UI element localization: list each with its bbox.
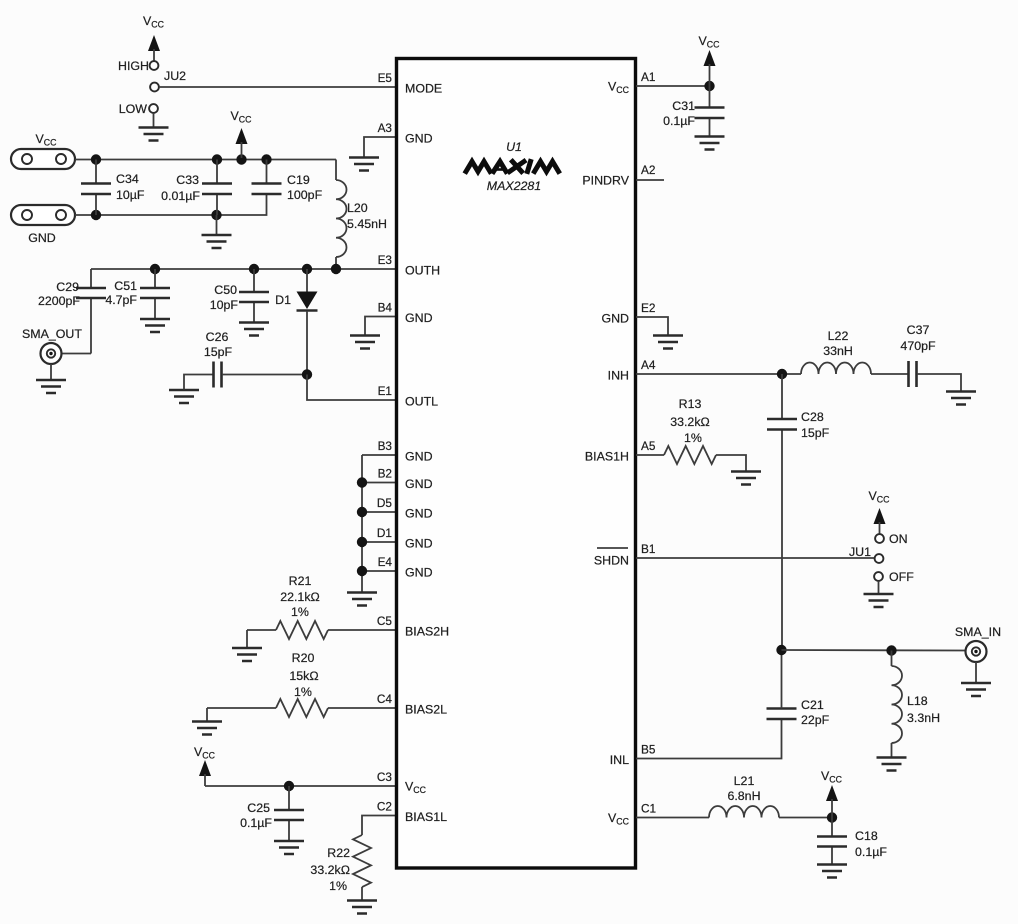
svg-text:GND: GND [405, 450, 433, 464]
jumper JU1 pin ON [875, 534, 884, 543]
wire to OUTL pin E1 [307, 375, 396, 401]
wire R21 left lead [247, 629, 276, 631]
svg-text:L18: L18 [907, 694, 928, 708]
capacitor C21 [767, 709, 797, 720]
junction C33 top [212, 154, 222, 164]
wire tap to L18 [891, 651, 893, 667]
ground at R22 [347, 901, 377, 914]
svg-text:1%: 1% [294, 685, 312, 699]
svg-text:INL: INL [610, 753, 629, 767]
wire pin D5 stub [362, 511, 396, 513]
svg-text:3.3nH: 3.3nH [907, 711, 940, 725]
inductor L22 [801, 363, 871, 375]
capacitor C33 leads [216, 160, 218, 216]
wire R13 to ground [716, 455, 746, 471]
svg-text:R13: R13 [679, 397, 702, 411]
wire pin C1 VCC [636, 817, 709, 819]
wire SMA_IN to ground [975, 662, 977, 683]
wire R21 to pin C5 [328, 629, 396, 631]
svg-text:SHDN: SHDN [594, 554, 629, 568]
svg-text:R22: R22 [327, 846, 350, 860]
svg-text:LOW: LOW [119, 102, 148, 116]
svg-text:100pF: 100pF [287, 188, 323, 202]
svg-text:L22: L22 [828, 329, 849, 343]
svg-text:2200pF: 2200pF [38, 294, 80, 308]
svg-text:E1: E1 [378, 384, 392, 398]
wire C37 to ground [917, 374, 961, 391]
rail VCC symbol [231, 109, 253, 158]
jumper JU2 pin HIGH [150, 61, 159, 70]
ground at SMA_IN [961, 683, 991, 696]
ground at R13 [731, 472, 761, 485]
svg-text:GND: GND [405, 507, 433, 521]
svg-text:VCC: VCC [699, 34, 721, 50]
wire JU2 to MODE pin E5 [159, 86, 396, 88]
svg-text:VCC: VCC [821, 769, 843, 785]
svg-text:B2: B2 [378, 467, 392, 481]
junction C51 top [150, 264, 160, 274]
wire R22 to ground [361, 887, 363, 900]
svg-text:0.1µF: 0.1µF [663, 114, 695, 128]
svg-text:C37: C37 [907, 323, 930, 337]
wire pin A2 stub [636, 179, 664, 181]
capacitor C33 [202, 184, 232, 195]
junction A1 VCC node [704, 81, 714, 91]
wire pin E4 stub [362, 570, 396, 572]
junction C19 top [261, 154, 271, 164]
ground at R21 [232, 648, 262, 661]
ground at C50 [239, 323, 269, 336]
wire pin A3 to ground [364, 137, 396, 157]
junction L20 bottom [331, 264, 341, 274]
svg-text:C4: C4 [377, 692, 393, 706]
wire pin D1 stub [362, 541, 396, 543]
JU1 pull-up VCC symbol [869, 489, 891, 534]
svg-text:C1: C1 [641, 802, 656, 816]
svg-text:GND: GND [601, 312, 629, 326]
junction L18 tap [886, 645, 896, 655]
svg-text:C28: C28 [801, 410, 824, 424]
junction D1 cathode / C26 / OUTL [302, 369, 312, 379]
ground at C18 [817, 865, 847, 878]
pin C3 supply VCC symbol [194, 745, 216, 786]
resistor R13 [664, 446, 716, 464]
junction bus D1 [357, 537, 367, 547]
svg-text:C5: C5 [377, 614, 393, 628]
svg-text:E2: E2 [641, 301, 655, 315]
ground at C25 [274, 841, 304, 854]
capacitor C28 leads [781, 374, 783, 650]
capacitor C19 [252, 184, 282, 195]
svg-text:0.1µF: 0.1µF [240, 816, 272, 830]
capacitor C50 [239, 292, 269, 302]
ground at SMA_OUT [36, 380, 66, 393]
ground at C31 [695, 137, 725, 150]
svg-text:15pF: 15pF [801, 426, 830, 440]
svg-text:R20: R20 [292, 651, 315, 665]
svg-text:E3: E3 [378, 253, 393, 267]
svg-text:BIAS1L: BIAS1L [405, 810, 447, 824]
wire pin A1 to C31 [636, 85, 710, 87]
svg-text:33.2kΩ: 33.2kΩ [670, 415, 710, 429]
svg-text:GND: GND [405, 132, 433, 146]
wire input rail to SMA_IN [782, 649, 966, 652]
capacitor C31 leads [709, 86, 711, 136]
svg-text:INH: INH [608, 369, 629, 383]
wire ground to C26 [184, 375, 214, 390]
junction bus B2 [357, 477, 367, 487]
svg-text:470pF: 470pF [900, 339, 936, 353]
svg-text:C25: C25 [247, 801, 270, 815]
ground at E2 [653, 336, 683, 349]
svg-text:C31: C31 [672, 99, 695, 113]
svg-text:C33: C33 [176, 173, 199, 187]
svg-text:C26: C26 [206, 330, 229, 344]
inductor L20 [336, 180, 347, 257]
wire R20 to ground [206, 708, 208, 721]
svg-text:SMA_OUT: SMA_OUT [22, 327, 82, 341]
ground at C33 [202, 235, 232, 248]
junction C50 top [249, 264, 259, 274]
pin A1 supply VCC symbol [699, 34, 721, 86]
wire L18 to ground [891, 743, 893, 757]
wire pin B3 stub [362, 454, 396, 456]
svg-text:B1: B1 [641, 542, 655, 556]
wire pin C2 to R22 [362, 816, 396, 836]
resistor R22 [353, 835, 371, 887]
wire rail to L20 [335, 160, 337, 181]
wire OFF to ground [878, 581, 880, 594]
svg-text:0.01µF: 0.01µF [161, 189, 200, 203]
wire VCC to pin C3 [205, 785, 396, 787]
svg-text:BIAS2H: BIAS2H [405, 625, 449, 639]
svg-text:C21: C21 [801, 698, 824, 712]
svg-text:B4: B4 [378, 301, 393, 315]
capacitor C37 [909, 361, 917, 387]
svg-text:L21: L21 [734, 774, 755, 788]
ground at JU2 LOW [139, 128, 169, 141]
svg-text:OFF: OFF [889, 570, 914, 584]
inductor L21 [709, 806, 779, 817]
svg-text:HIGH: HIGH [118, 59, 149, 73]
jumper JU1 pin OFF [874, 572, 883, 581]
ground at C37 [946, 392, 976, 405]
svg-text:A3: A3 [378, 121, 393, 135]
svg-text:1%: 1% [684, 431, 702, 445]
capacitor C18 [817, 837, 847, 847]
svg-text:10µF: 10µF [116, 188, 145, 202]
wire pin B1 SHDN to JU1 [636, 557, 875, 559]
svg-text:15kΩ: 15kΩ [289, 669, 318, 683]
resistor R20 [276, 699, 328, 717]
svg-text:C29: C29 [56, 280, 79, 294]
junction VCC arrow node [236, 154, 246, 164]
svg-text:C34: C34 [116, 172, 139, 186]
svg-text:15pF: 15pF [204, 345, 233, 359]
inductor L18 [892, 666, 903, 743]
ground at GND bus [347, 593, 377, 606]
svg-text:33nH: 33nH [823, 344, 853, 358]
svg-text:GND: GND [405, 537, 433, 551]
wire pin B4 to ground [365, 317, 396, 336]
wire pin E2 to ground [636, 317, 668, 335]
svg-text:VCC: VCC [231, 109, 253, 125]
wire L20 to OUTH [335, 257, 337, 269]
wire C33 to ground [216, 215, 218, 235]
wire OUTH rail E3 [91, 268, 396, 270]
wire LOW to ground [153, 113, 155, 127]
capacitor C51 [140, 288, 170, 298]
svg-text:4.7pF: 4.7pF [105, 293, 137, 307]
svg-text:0.1µF: 0.1µF [855, 845, 887, 859]
svg-text:5.45nH: 5.45nH [347, 217, 387, 231]
svg-text:1%: 1% [291, 605, 309, 619]
svg-text:22pF: 22pF [801, 713, 830, 727]
junction bus D5 [357, 507, 367, 517]
IC U1 MAX2281 body [397, 59, 636, 869]
wire GND bus vertical [361, 455, 363, 592]
pin C1 supply VCC symbol [821, 769, 843, 818]
capacitor C29 [76, 288, 106, 298]
jumper JU1 pin common [875, 554, 884, 563]
svg-text:R21: R21 [289, 574, 312, 588]
svg-text:C18: C18 [855, 829, 878, 843]
wire R21 to ground [246, 630, 248, 648]
ground at JU1 OFF [864, 594, 894, 607]
diode D1 [297, 269, 318, 375]
wire pin B2 stub [362, 482, 396, 484]
junction input node C28/C21 [776, 645, 786, 655]
svg-text:A1: A1 [641, 70, 655, 84]
capacitor C50 leads [253, 269, 255, 322]
capacitor C34 [81, 184, 111, 195]
junction C25 top [284, 781, 294, 791]
svg-text:L20: L20 [347, 201, 368, 215]
svg-text:33.2kΩ: 33.2kΩ [310, 863, 350, 877]
wire SMA_OUT to ground [50, 364, 52, 380]
connector VCC header [11, 149, 75, 169]
junction D1 anode [302, 264, 312, 274]
junction C34 bottom [91, 210, 101, 220]
jumper JU2 pin LOW [149, 104, 158, 113]
MAXIM logo [466, 162, 559, 172]
svg-text:E5: E5 [378, 71, 393, 85]
junction bus E4 [357, 566, 367, 576]
svg-text:GND: GND [405, 311, 433, 325]
svg-text:A2: A2 [641, 163, 655, 177]
wire pin B5 INL [636, 720, 782, 759]
connector SMA_IN [955, 625, 1001, 662]
ground at B4 [350, 336, 380, 349]
capacitor C34 leads [95, 160, 97, 216]
wire C21 to input node [781, 650, 783, 709]
svg-text:C3: C3 [377, 770, 393, 784]
jumper JU2 pin common [150, 83, 159, 92]
svg-text:PINDRV: PINDRV [582, 174, 629, 188]
svg-text:D5: D5 [377, 496, 393, 510]
svg-text:OUTL: OUTL [405, 395, 438, 409]
junction C33 bottom [211, 210, 221, 220]
JU2 pull-up VCC symbol [143, 14, 165, 61]
capacitor C19 leads [266, 160, 268, 184]
svg-text:C19: C19 [287, 173, 310, 187]
ground at A3 [349, 158, 379, 171]
svg-text:D1: D1 [275, 293, 291, 307]
svg-text:OUTH: OUTH [405, 264, 440, 278]
svg-text:A5: A5 [641, 439, 656, 453]
junction C18 node [827, 812, 837, 822]
svg-text:E4: E4 [378, 555, 393, 569]
ground at L18 [877, 758, 907, 771]
ground at C26 [169, 390, 199, 403]
svg-text:A4: A4 [641, 358, 656, 372]
svg-text:JU2: JU2 [164, 69, 186, 83]
capacitor C25 leads [288, 786, 290, 841]
svg-text:B5: B5 [641, 743, 656, 757]
svg-text:D1: D1 [377, 526, 392, 540]
svg-text:MAX2281: MAX2281 [487, 179, 541, 193]
capacitor C31 [695, 108, 725, 119]
wire L21 to C18 node [779, 817, 832, 819]
wire pin A4 INH [636, 373, 801, 375]
svg-text:ON: ON [889, 532, 908, 546]
connector SMA_OUT [22, 327, 82, 364]
svg-text:22.1kΩ: 22.1kΩ [280, 590, 320, 604]
svg-text:10pF: 10pF [210, 298, 239, 312]
svg-text:VCC: VCC [194, 745, 216, 761]
svg-text:B3: B3 [378, 439, 393, 453]
svg-text:VCC: VCC [143, 14, 165, 30]
svg-text:U1: U1 [506, 140, 522, 154]
svg-text:GND: GND [405, 566, 433, 580]
svg-text:BIAS2L: BIAS2L [405, 703, 447, 717]
wire C26 to OUTL node [222, 374, 307, 376]
svg-text:GND: GND [28, 231, 56, 245]
svg-text:VCC: VCC [36, 132, 58, 148]
svg-text:GND: GND [405, 477, 433, 491]
connector GND header [11, 205, 75, 225]
ground at R20 [192, 722, 222, 735]
wire pin A5 to R13 [636, 454, 664, 456]
capacitor C26 [214, 362, 222, 388]
ground at C51 [140, 319, 170, 332]
svg-text:SMA_IN: SMA_IN [955, 625, 1001, 639]
svg-text:C51: C51 [114, 279, 137, 293]
wire VCC rail [75, 159, 336, 161]
wire L22 to C37 [871, 373, 908, 375]
svg-text:MODE: MODE [405, 82, 442, 96]
capacitor C51 leads [154, 269, 156, 319]
wire R20 to pin C4 [328, 707, 396, 709]
junction C34 top [91, 154, 101, 164]
capacitor C28 [767, 419, 797, 430]
svg-text:BIAS1H: BIAS1H [585, 450, 629, 464]
wire R20 left lead [207, 707, 276, 709]
capacitor C29 leads [62, 269, 91, 354]
svg-text:JU1: JU1 [849, 545, 871, 559]
svg-text:C2: C2 [377, 800, 392, 814]
wire GND rail [75, 195, 267, 216]
junction INH / C28 [777, 369, 787, 379]
capacitor C25 [274, 810, 304, 820]
resistor R21 [276, 621, 328, 639]
svg-text:C50: C50 [214, 283, 237, 297]
svg-text:VCC: VCC [869, 489, 891, 505]
svg-text:6.8nH: 6.8nH [727, 789, 760, 803]
svg-text:1%: 1% [329, 879, 347, 893]
capacitor C18 leads [831, 818, 833, 865]
